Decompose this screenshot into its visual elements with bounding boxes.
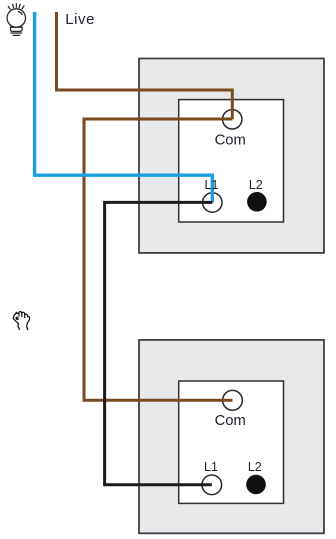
svg-text:L2: L2 — [248, 460, 262, 474]
svg-text:L2: L2 — [249, 178, 263, 192]
switch 2 terminal L2 (filled, unused) — [246, 475, 266, 495]
wire: brown live feed to switch 1 Com — [57, 12, 233, 119]
lamp (bulb icon) — [7, 4, 25, 36]
switch 1 terminal Com — [223, 110, 242, 129]
switch 2 terminal Com — [223, 390, 243, 410]
svg-text:Live: Live — [65, 11, 95, 28]
wire: blue neutral from lamp to switch 1 L1 — [35, 12, 213, 203]
wire: brown link switch 1 Com to switch 2 Com — [84, 119, 233, 400]
hand cursor (grab icon) — [13, 312, 29, 330]
switch 1 plate (top switch outer box) — [139, 59, 324, 253]
switch 2 inner faceplate — [179, 381, 284, 503]
switch 1 terminal L1 — [203, 193, 222, 212]
switch 2 plate (bottom switch outer box) — [139, 340, 324, 533]
svg-text:Com: Com — [215, 132, 246, 148]
svg-text:L1: L1 — [204, 460, 218, 474]
wire: black link switch 1 L1 to switch 2 L1 — [105, 202, 213, 484]
svg-text:Com: Com — [215, 413, 246, 429]
switch 1 terminal L2 (filled, unused) — [247, 192, 267, 212]
switch 2 terminal L1 — [202, 475, 222, 495]
svg-text:L1: L1 — [205, 178, 219, 192]
switch 1 inner faceplate — [179, 100, 284, 222]
